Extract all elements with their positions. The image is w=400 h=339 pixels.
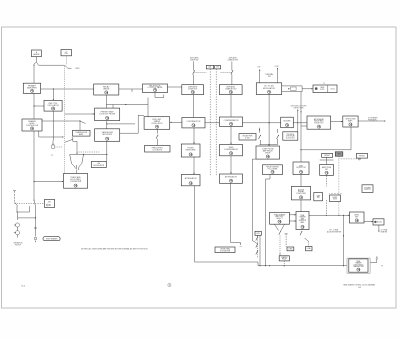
svg-text:C2: C2 <box>51 155 53 157</box>
svg-text:ALARM: ALARM <box>33 53 39 56</box>
svg-text:VALVE: VALVE <box>103 88 110 91</box>
svg-text:MODULATOR: MODULATOR <box>93 164 104 167</box>
svg-text:LOCKOUT VALVE: LOCKOUT VALVE <box>148 86 163 89</box>
svg-text:FWD: FWD <box>75 68 80 70</box>
svg-text:AMPL: AMPL <box>79 133 84 136</box>
svg-text:DET: DET <box>325 169 328 171</box>
svg-text:PULSE CKT: PULSE CKT <box>314 122 323 124</box>
svg-text:SUPPLY: SUPPLY <box>364 189 371 191</box>
svg-text:TEST: TEST <box>337 154 341 156</box>
svg-text:DRIVE: DRIVE <box>265 152 271 154</box>
svg-text:COMPENSATOR: COMPENSATOR <box>224 148 239 151</box>
svg-text:SELECT: SELECT <box>276 218 282 220</box>
svg-text:PICKUP: PICKUP <box>15 245 22 247</box>
svg-text:TROUBLE: TROUBLE <box>287 134 295 136</box>
svg-text:RESPONSE: RESPONSE <box>186 150 197 152</box>
svg-text:SET: SET <box>355 216 358 218</box>
svg-text:(VLV): (VLV) <box>331 88 335 90</box>
svg-text:BUZZER: BUZZER <box>284 120 292 122</box>
svg-text:ATTENUATOR: ATTENUATOR <box>225 176 238 179</box>
svg-text:PNL: PNL <box>65 53 68 55</box>
svg-text:COMPENSATOR: COMPENSATOR <box>224 119 239 122</box>
svg-text:& SIG: & SIG <box>245 137 250 139</box>
svg-text:LEVEL: LEVEL <box>333 197 338 199</box>
svg-text:LOG BOOK: LOG BOOK <box>153 149 163 151</box>
svg-text:yy: yy <box>381 265 383 267</box>
svg-text:CHARGE SW: CHARGE SW <box>227 59 238 62</box>
svg-text:VOLTMETER: VOLTMETER <box>220 250 231 252</box>
svg-text:FRONT: FRONT <box>359 155 365 157</box>
svg-text:CONVERTER: CONVERTER <box>70 181 82 183</box>
svg-text:(TEST MODE): (TEST MODE) <box>354 264 364 266</box>
svg-text:CW: CW <box>257 66 260 68</box>
svg-text:CCW: CCW <box>274 66 278 68</box>
svg-text:NETWORK: NETWORK <box>102 134 112 136</box>
svg-text:MONITOR: MONITOR <box>299 220 307 222</box>
svg-text:DUMP SW: DUMP SW <box>190 60 199 62</box>
svg-text:RESET: RESET <box>324 155 330 157</box>
svg-text:DETECTOR: DETECTOR <box>294 108 305 110</box>
svg-text:DET: DET <box>48 202 51 204</box>
svg-text:ATTENUATOR: ATTENUATOR <box>185 177 198 180</box>
svg-text:SW: SW <box>268 76 271 78</box>
svg-text:MODULATOR: MODULATOR <box>263 87 276 90</box>
svg-text:(LOCKOUT): (LOCKOUT) <box>286 137 295 139</box>
svg-text:AMPL: AMPL <box>348 119 353 122</box>
svg-text:COMPUTER: COMPUTER <box>296 193 306 195</box>
svg-text:OSCILLATOR: OSCILLATOR <box>47 104 59 107</box>
svg-text:TEST SHAKER: TEST SHAKER <box>46 237 58 240</box>
svg-text:CKT: CKT <box>216 67 219 69</box>
svg-text:70-4: 70-4 <box>21 285 25 287</box>
svg-text:mv: mv <box>240 246 242 248</box>
svg-text:PWR AMPL: PWR AMPL <box>368 118 377 121</box>
svg-text:NOTES: ALL SWITCHES ARE SHOWN: NOTES: ALL SWITCHES ARE SHOWN IN THE NOR… <box>81 247 148 250</box>
svg-text:OSCILLATOR: OSCILLATOR <box>151 122 163 125</box>
svg-text:AMPLIFIER: AMPLIFIER <box>27 86 37 89</box>
svg-text:LOCKOUT FILTER: LOCKOUT FILTER <box>99 113 116 115</box>
svg-text:CONTRIBUTOR: CONTRIBUTOR <box>187 121 201 123</box>
svg-text:SUPP: SUPP <box>320 89 324 91</box>
svg-text:DETECTOR: DETECTOR <box>296 167 306 169</box>
